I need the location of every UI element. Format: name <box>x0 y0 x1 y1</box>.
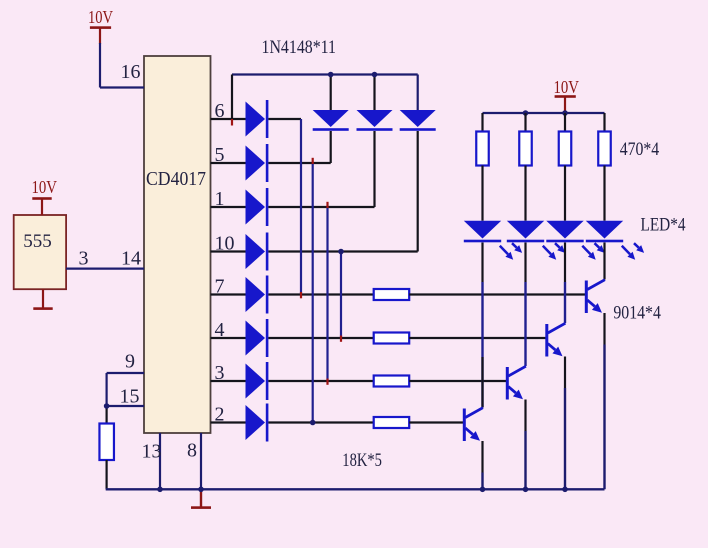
svg-text:9: 9 <box>125 351 135 373</box>
svg-text:10V: 10V <box>554 77 580 97</box>
svg-text:6: 6 <box>215 100 225 122</box>
svg-text:13: 13 <box>142 441 162 463</box>
svg-text:10V: 10V <box>32 177 58 197</box>
svg-text:10: 10 <box>215 233 235 255</box>
svg-text:1: 1 <box>215 188 225 210</box>
svg-text:470*4: 470*4 <box>620 139 660 160</box>
svg-text:3: 3 <box>79 248 89 270</box>
svg-text:16: 16 <box>121 61 141 83</box>
svg-text:3: 3 <box>215 362 225 384</box>
svg-text:1N4148*11: 1N4148*11 <box>262 37 337 58</box>
svg-text:7: 7 <box>215 276 225 298</box>
svg-text:LED*4: LED*4 <box>641 215 686 236</box>
svg-text:5: 5 <box>215 144 225 166</box>
svg-text:555: 555 <box>23 231 52 252</box>
svg-text:8: 8 <box>187 440 197 462</box>
svg-text:2: 2 <box>215 404 225 426</box>
svg-text:15: 15 <box>120 385 140 407</box>
svg-text:9014*4: 9014*4 <box>613 303 661 324</box>
svg-text:10V: 10V <box>88 7 113 27</box>
svg-text:14: 14 <box>121 248 141 270</box>
svg-text:4: 4 <box>215 319 225 341</box>
svg-text:CD4017: CD4017 <box>146 168 206 190</box>
svg-text:18K*5: 18K*5 <box>342 450 382 471</box>
